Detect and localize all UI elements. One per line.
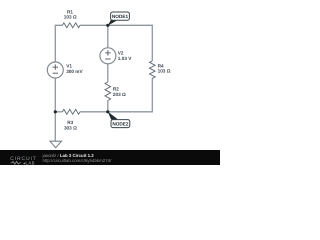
node NODE2 label: [111, 120, 130, 128]
svg-text:R1: R1: [67, 9, 73, 14]
svg-text:303 Ω: 303 Ω: [64, 125, 77, 130]
node NODE2 flag pointer: [108, 112, 118, 120]
ground: [50, 141, 62, 148]
junction bottom-left: [54, 110, 57, 113]
wire ground stub: [54, 112, 56, 141]
resistor R3: [62, 109, 80, 114]
svg-text:103 Ω: 103 Ω: [158, 69, 171, 74]
svg-text:R2: R2: [113, 86, 119, 91]
junction NODE2: [106, 110, 109, 113]
svg-text:◂LAB: ◂LAB: [23, 160, 35, 165]
wire top-right: R1 right to NODE1 junction to R4 top: [80, 25, 152, 61]
wire left column: V1 bottom to bottom-left junction: [54, 78, 56, 112]
junction NODE1: [106, 24, 109, 27]
wire mid column: V2 bottom to R2 top: [107, 64, 109, 82]
svg-text:NODE1: NODE1: [112, 14, 129, 19]
svg-text:R4: R4: [158, 63, 164, 68]
svg-text:R3: R3: [67, 120, 73, 125]
resistor R2: [105, 82, 111, 101]
voltage source V1: [47, 62, 63, 78]
wire bottom-right: R3 right to R4 bottom: [80, 78, 152, 111]
node NODE1 flag pointer: [108, 20, 118, 26]
svg-text:1.03 V: 1.03 V: [118, 56, 132, 61]
wire mid column bottom: R2 bottom to NODE2 junction: [107, 101, 109, 112]
svg-text:V1: V1: [66, 64, 72, 69]
resistor R4: [150, 61, 156, 79]
svg-text:V2: V2: [118, 50, 124, 55]
svg-text:203 Ω: 203 Ω: [113, 92, 126, 97]
node NODE1 label: [111, 12, 130, 20]
svg-text:NODE2: NODE2: [112, 122, 129, 127]
footer bar: [0, 150, 220, 165]
wire bottom-left: junction to R3 left: [55, 111, 62, 113]
wire mid column top: NODE1 junction down to V2: [107, 25, 109, 48]
footer CircuitLab logo wordmark: [10, 156, 37, 165]
voltage source V2: [100, 48, 116, 64]
svg-text:300 mV: 300 mV: [66, 69, 83, 74]
resistor R1: [62, 23, 80, 28]
svg-text:103 Ω: 103 Ω: [64, 15, 77, 20]
wire top-left: V1 top to R1 left: [55, 25, 62, 62]
svg-text:http://circuitlab.com/c/6yh4bk: http://circuitlab.com/c/6yh4bkm27d/: [43, 158, 113, 163]
